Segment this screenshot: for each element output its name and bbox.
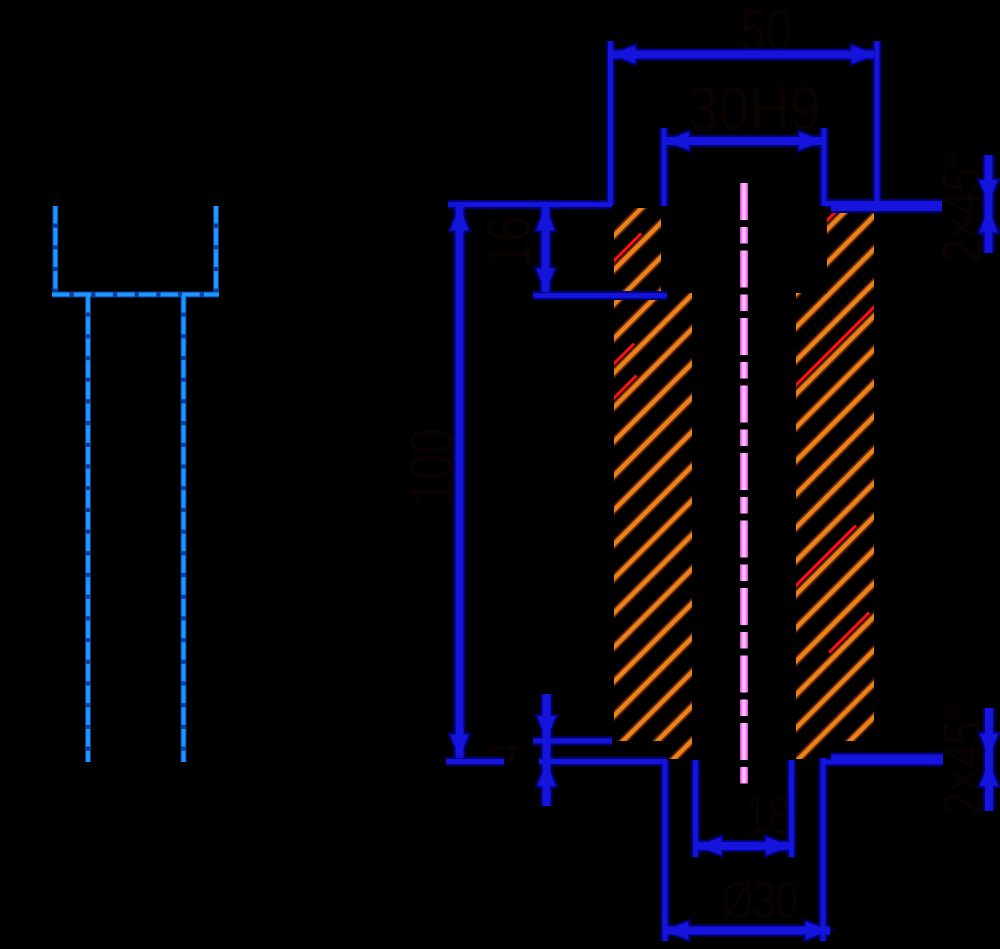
svg-text:Ø30: Ø30 <box>722 871 799 929</box>
svg-text:16: 16 <box>473 216 543 268</box>
